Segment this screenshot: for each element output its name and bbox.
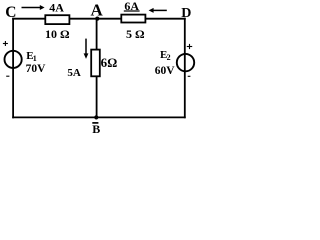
svg-text:D: D [181,6,191,21]
svg-text:B: B [92,122,100,136]
svg-text:4A: 4A [49,1,64,15]
svg-text:70V: 70V [26,63,46,75]
svg-text:2: 2 [167,53,171,62]
svg-text:60V: 60V [155,65,176,77]
svg-text:A: A [91,0,104,19]
svg-text:1: 1 [33,54,37,63]
svg-text:10 Ω: 10 Ω [45,27,70,41]
svg-text:5 Ω: 5 Ω [126,27,145,41]
svg-text:C: C [5,4,16,21]
svg-text:Ω: Ω [107,56,117,70]
svg-text:5A: 5A [67,67,81,79]
